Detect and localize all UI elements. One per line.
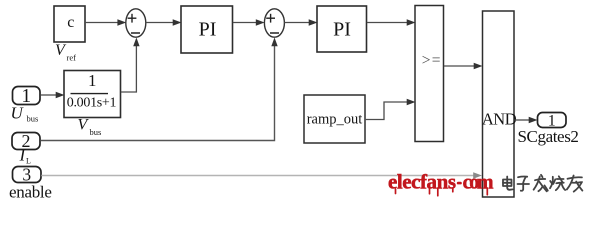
watermark hanzi you (友) — [567, 176, 583, 192]
PI controller block PI2 — [317, 6, 367, 52]
svg-text:>=: >= — [422, 52, 442, 69]
label V_ref — [55, 42, 76, 63]
svg-text:PI: PI — [199, 19, 217, 41]
svg-text:1: 1 — [88, 71, 97, 90]
constant block C (value c) — [54, 6, 85, 42]
PI controller block PI1 — [181, 6, 233, 53]
sum junction S2 — [264, 9, 284, 37]
svg-text:ramp_out: ramp_out — [307, 112, 363, 128]
svg-text:ref: ref — [67, 53, 77, 63]
sum junction S1 — [126, 9, 146, 37]
watermark hanzi fa (发) — [534, 175, 548, 192]
outport 1 SCgates2 — [538, 113, 567, 130]
wire sum1 to PI1 — [146, 19, 182, 26]
inport 3 enable — [13, 164, 42, 184]
wire transfer function to sum1 minus — [121, 38, 140, 93]
wire AND to outport — [514, 117, 537, 124]
wire inport1 to transfer function — [40, 92, 64, 99]
wire PI1 to sum2 — [233, 19, 265, 26]
wire c to sum1 — [86, 19, 126, 26]
transfer function block 1/(0.001s+1) — [64, 71, 121, 118]
ramp_out block — [304, 95, 365, 143]
label V_bus — [78, 117, 102, 138]
watermark hanzi zi (子) — [518, 177, 530, 191]
svg-text:SCgates2: SCgates2 — [518, 127, 579, 146]
inport 2 I_L — [12, 131, 40, 151]
svg-text:bus: bus — [27, 114, 39, 124]
wire comparator to AND — [444, 63, 483, 70]
svg-text:U: U — [11, 104, 25, 123]
svg-text:c: c — [67, 14, 74, 31]
watermark hanzi shao (烧) — [550, 176, 565, 190]
inport 1 U_bus — [13, 86, 41, 107]
svg-text:V: V — [78, 117, 90, 134]
logic block AND — [482, 11, 517, 197]
wire enable to AND — [41, 172, 482, 179]
label enable — [9, 182, 52, 201]
svg-text:0.001s+1: 0.001s+1 — [67, 95, 117, 110]
wire inport2 to sum2 minus — [40, 38, 277, 141]
label U_bus — [11, 104, 39, 124]
svg-text:elecfans: elecfans — [388, 170, 456, 194]
comparator block GE (>=) — [415, 6, 444, 142]
svg-text:enable: enable — [9, 182, 52, 201]
watermark elecfans.com — [388, 170, 494, 194]
svg-text:AND: AND — [482, 110, 517, 129]
watermark drips — [396, 188, 488, 196]
wire ramp_out to comparator — [366, 99, 416, 120]
svg-text:com: com — [463, 172, 494, 194]
svg-text:3: 3 — [22, 164, 31, 184]
wire sum2 to PI2 — [284, 19, 317, 26]
wire PI2 to comparator — [367, 19, 416, 26]
svg-text:V: V — [55, 42, 67, 59]
label I_L — [19, 146, 32, 166]
svg-text:1: 1 — [21, 86, 31, 107]
watermark hanzi dian (电) — [503, 177, 513, 190]
svg-text:PI: PI — [333, 19, 351, 41]
label SCgates2 — [518, 127, 579, 146]
svg-text:bus: bus — [90, 127, 102, 137]
